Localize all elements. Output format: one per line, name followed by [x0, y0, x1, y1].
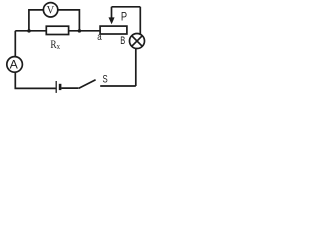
svg-text:V: V: [47, 5, 55, 17]
node: junction dot right: [78, 29, 82, 33]
battery: long plate (+): [55, 81, 57, 93]
wire: top right horizontal: [112, 6, 141, 8]
wire: bottom right segment: [100, 85, 136, 87]
label B: [120, 35, 125, 47]
svg-text:x: x: [57, 42, 60, 51]
node: junction dot left: [27, 29, 31, 33]
lamp: [130, 34, 145, 49]
svg-text:P: P: [121, 12, 127, 24]
label a: [97, 32, 102, 43]
label S: [103, 74, 108, 86]
wire: right vertical upper, lamp to top wire: [139, 7, 141, 35]
svg-text:B: B: [120, 35, 125, 47]
battery: short thick plate (-): [59, 84, 62, 90]
wire: left vertical, corner to ammeter: [14, 31, 16, 57]
label Rx: [50, 39, 60, 51]
switch S blade: [79, 80, 96, 89]
potentiometer slider arrow: [109, 7, 115, 24]
voltmeter V: [43, 3, 57, 17]
wire: ammeter to bottom-left corner and bottom segment to battery: [15, 72, 56, 88]
wire: voltmeter branch right lead + right vertical: [58, 10, 80, 31]
svg-text:S: S: [103, 74, 108, 86]
svg-text:A: A: [10, 58, 19, 72]
resistor Rx: [46, 26, 68, 34]
wire: right vertical lower, lamp to bottom: [135, 48, 137, 86]
wire: voltmeter branch left vertical + top lead: [29, 10, 44, 31]
wire: main horizontal wire y=30.8 from left corner to rheostat: [15, 30, 100, 32]
svg-text:a: a: [97, 32, 102, 43]
potentiometer (rheostat) box: [100, 26, 127, 34]
wire: battery to switch contact: [61, 87, 78, 89]
label P: [121, 12, 127, 24]
ammeter A: [7, 57, 23, 73]
